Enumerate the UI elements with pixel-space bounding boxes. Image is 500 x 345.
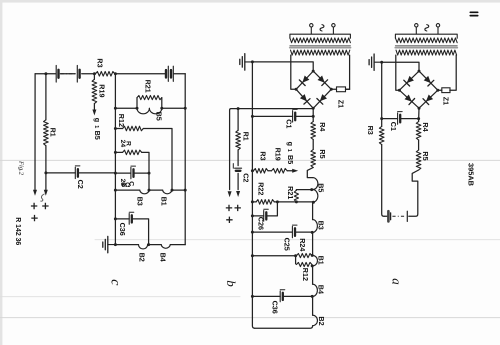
fuse/resistor Z1 (circuit a): [438, 89, 442, 91]
svg-text:C1: C1: [389, 122, 398, 131]
scan fold line 2: [95, 239, 500, 241]
svg-text:b: b: [224, 280, 239, 287]
svg-text:R12: R12: [301, 268, 310, 281]
rectifier bridge (circuit a): diodes: [399, 71, 419, 90]
svg-text:B5: B5: [286, 155, 295, 164]
capacitor C1 (circuit b) reservoir: [251, 115, 254, 118]
svg-text:C2: C2: [76, 180, 85, 189]
svg-text:B4: B4: [159, 253, 168, 262]
tube filament B5 (circuit b, two sections): [313, 178, 318, 190]
wire: bridge bottom to R4 (circuit a): [418, 108, 420, 150]
battery cell 4: [172, 66, 174, 81]
wire: secondary right to Z1 (circuit a): [450, 55, 456, 90]
resistor R12 (circuit c) and wire to B1: [114, 127, 117, 130]
wire: bottom filament line B2/B4 (circuit c): [114, 243, 117, 246]
resistor R1 (circuit b): [236, 130, 241, 150]
dash-dot battery link: [61, 73, 75, 75]
svg-text:1: 1: [93, 125, 99, 128]
svg-text:C26: C26: [256, 217, 265, 230]
tube filament B2 (circuit c): [139, 245, 148, 249]
svg-text:1: 1: [286, 149, 292, 152]
resistor R24 (circuit c) and wire down: [114, 151, 117, 154]
svg-text:B4: B4: [316, 285, 325, 294]
resistor R12 (circuit b): [297, 262, 312, 266]
svg-text:R4: R4: [421, 122, 430, 131]
tube filament B4 (circuit c): [161, 245, 170, 249]
svg-text:Z1: Z1: [441, 97, 450, 105]
svg-text:24: 24: [119, 140, 126, 148]
svg-text:g: g: [93, 118, 102, 122]
scan fold line 4: [0, 317, 500, 319]
capacitor C1 (circuit a): [382, 118, 419, 120]
svg-text:R12: R12: [117, 114, 126, 127]
wire jog to battery (circuit a): [409, 170, 419, 216]
battery cell 1 (LT battery left): [55, 66, 57, 83]
tube filament B3 (circuit c): [140, 190, 150, 194]
svg-text:Fig.2: Fig.2: [18, 160, 25, 176]
svg-text:R24: R24: [298, 238, 307, 251]
svg-text:R19: R19: [273, 148, 282, 161]
svg-text:R4: R4: [318, 122, 327, 131]
wire jog R5 to B5: [307, 168, 313, 178]
wire: ground to bridge top (circuit a): [382, 62, 419, 71]
svg-text:B3: B3: [136, 197, 145, 206]
resistor R3 (circuit c): [96, 72, 115, 77]
wire: secondary left to bridge (circuit b): [291, 55, 296, 89]
battery cell 2: [76, 66, 78, 83]
wire: [312, 296, 314, 315]
DC symbol = top right: [470, 12, 477, 15]
wire to R24/R12 node (circuit b): [251, 254, 254, 257]
svg-text:R1: R1: [49, 128, 58, 137]
svg-text:C25: C25: [282, 238, 291, 251]
svg-text:R3: R3: [366, 126, 375, 135]
svg-text:B2: B2: [138, 253, 147, 262]
tube filament B1 (circuit b): [313, 255, 318, 266]
resistor R1 (circuit c): [44, 120, 49, 146]
capacitor C2 (circuit b): [235, 167, 242, 169]
wire: left rail with R3 (circuit a): [382, 62, 384, 216]
transformer T1 (circuit b): [310, 27, 312, 34]
circuit c: inner left rail: [114, 74, 116, 245]
svg-text:g: g: [286, 142, 295, 146]
svg-text:B5: B5: [154, 112, 163, 121]
resistor R4 (circuit a): [416, 122, 421, 141]
svg-text:c: c: [107, 279, 122, 286]
ground (circuit b): [245, 61, 253, 63]
node: inner rail top junction: [114, 72, 117, 75]
resistor R3 (circuit a): [379, 126, 384, 144]
wire: filament line B3/B1 (circuit c): [114, 189, 117, 192]
svg-text:B2: B2: [317, 316, 326, 325]
tube filament B2 (circuit b): [313, 315, 318, 326]
ground (circuit a): [374, 61, 382, 63]
svg-text:C1: C1: [284, 119, 293, 128]
node: R19 tap junction: [93, 72, 96, 75]
svg-text:R5: R5: [421, 151, 430, 160]
svg-text:R1: R1: [241, 132, 250, 141]
wire: bottom return (circuit b): [255, 326, 313, 329]
resistor R21 (circuit c, shunt on B5 filament): [137, 98, 162, 109]
svg-text:B1: B1: [316, 256, 325, 265]
svg-text:R 142 36: R 142 36: [14, 217, 21, 245]
svg-text:C36: C36: [118, 223, 127, 236]
wire: [312, 232, 314, 255]
fuse/resistor Z1 (circuit b): [331, 88, 336, 90]
tube filament B5 (circuit c, two sections): [137, 108, 149, 114]
wire: ground to bridge top: [252, 62, 313, 71]
svg-text:B1: B1: [160, 197, 169, 206]
circuit c: right rail: [184, 74, 186, 245]
wire: B5/R21 parallel group line: [115, 107, 185, 109]
resistor R24 (circuit b): [297, 254, 312, 258]
plus marks (output polarity): [31, 203, 37, 209]
svg-text:5Ω: 5Ω: [122, 182, 131, 189]
tube filament B4 (circuit b): [313, 284, 318, 296]
resistor R4 (circuit b): [311, 122, 316, 140]
resistor R5 (circuit a): [416, 150, 421, 170]
tube filament B3 (circuit b): [313, 220, 318, 233]
battery under charge (circuit a): [384, 215, 387, 217]
svg-text:R3: R3: [259, 151, 268, 160]
capacitor C25 (circuit b): [251, 231, 254, 234]
wire: secondary right to Z1 (circuit b): [346, 55, 350, 89]
resistor R21 (circuit b): [294, 190, 298, 202]
plus marks (circuit b outputs): [226, 205, 232, 211]
wire: left rail (circuit b): [251, 62, 253, 297]
svg-text:B3: B3: [316, 221, 325, 230]
wire: R1/C2 branch (circuit b): [237, 107, 240, 110]
svg-text:Z1: Z1: [336, 100, 345, 108]
svg-text:R21: R21: [286, 186, 295, 199]
svg-text:R5: R5: [318, 149, 327, 158]
capacitor C25 (circuit c) on decoupling line: [114, 172, 117, 175]
ground (circuit c): [108, 244, 116, 246]
wire: B+ output line (circuit b): [230, 109, 314, 190]
wire: [312, 202, 314, 219]
transformer T1 (circuit a): [415, 27, 417, 34]
wire: [312, 266, 314, 284]
capacitor C36 (circuit c): [114, 217, 117, 220]
svg-text:B5: B5: [316, 183, 325, 192]
capacitor C26 (circuit b): [251, 214, 254, 217]
svg-text:B5: B5: [93, 131, 102, 140]
scan edge shading top: [0, 0, 500, 3]
svg-text:C2: C2: [242, 173, 251, 182]
svg-text:R21: R21: [143, 80, 152, 93]
tube filament B1 (circuit c): [163, 190, 172, 194]
capacitor C36 (circuit b): [251, 295, 254, 298]
circuit c: left rail wire with output arrow: [34, 74, 36, 190]
circuit c: R1 branch wire: [44, 72, 47, 75]
rectifier bridge (circuit b): diodes: [296, 71, 313, 89]
circuit c: top rail wire: [35, 73, 185, 75]
svg-text:a: a: [389, 278, 404, 285]
battery B (HT) right: cell 3: [167, 66, 169, 81]
scan fold line 3: [0, 296, 240, 298]
scan curl artifact near arrow: [41, 194, 45, 201]
resistor R5 (circuit b): [311, 150, 316, 168]
svg-text:R3: R3: [96, 58, 105, 67]
svg-text:R22: R22: [257, 182, 266, 195]
wire: secondary left to bridge (circuit a): [396, 55, 400, 90]
scan edge shading left: [0, 0, 2, 345]
scan fold line 1: [0, 159, 500, 161]
wire+resistor R22 (circuit b): [251, 200, 254, 203]
capacitor C2 (circuit c): [44, 171, 47, 174]
filament column (circuit b): R4 R5 and tube filaments: [312, 108, 314, 149]
svg-text:395AB: 395AB: [467, 163, 476, 186]
resistor R19 (circuit c) with grid arrow: [93, 74, 95, 110]
svg-text:C36: C36: [270, 301, 279, 314]
resistors R3+R19 with grid arrow (circuit b): [251, 169, 254, 172]
svg-text:R19: R19: [98, 84, 107, 97]
